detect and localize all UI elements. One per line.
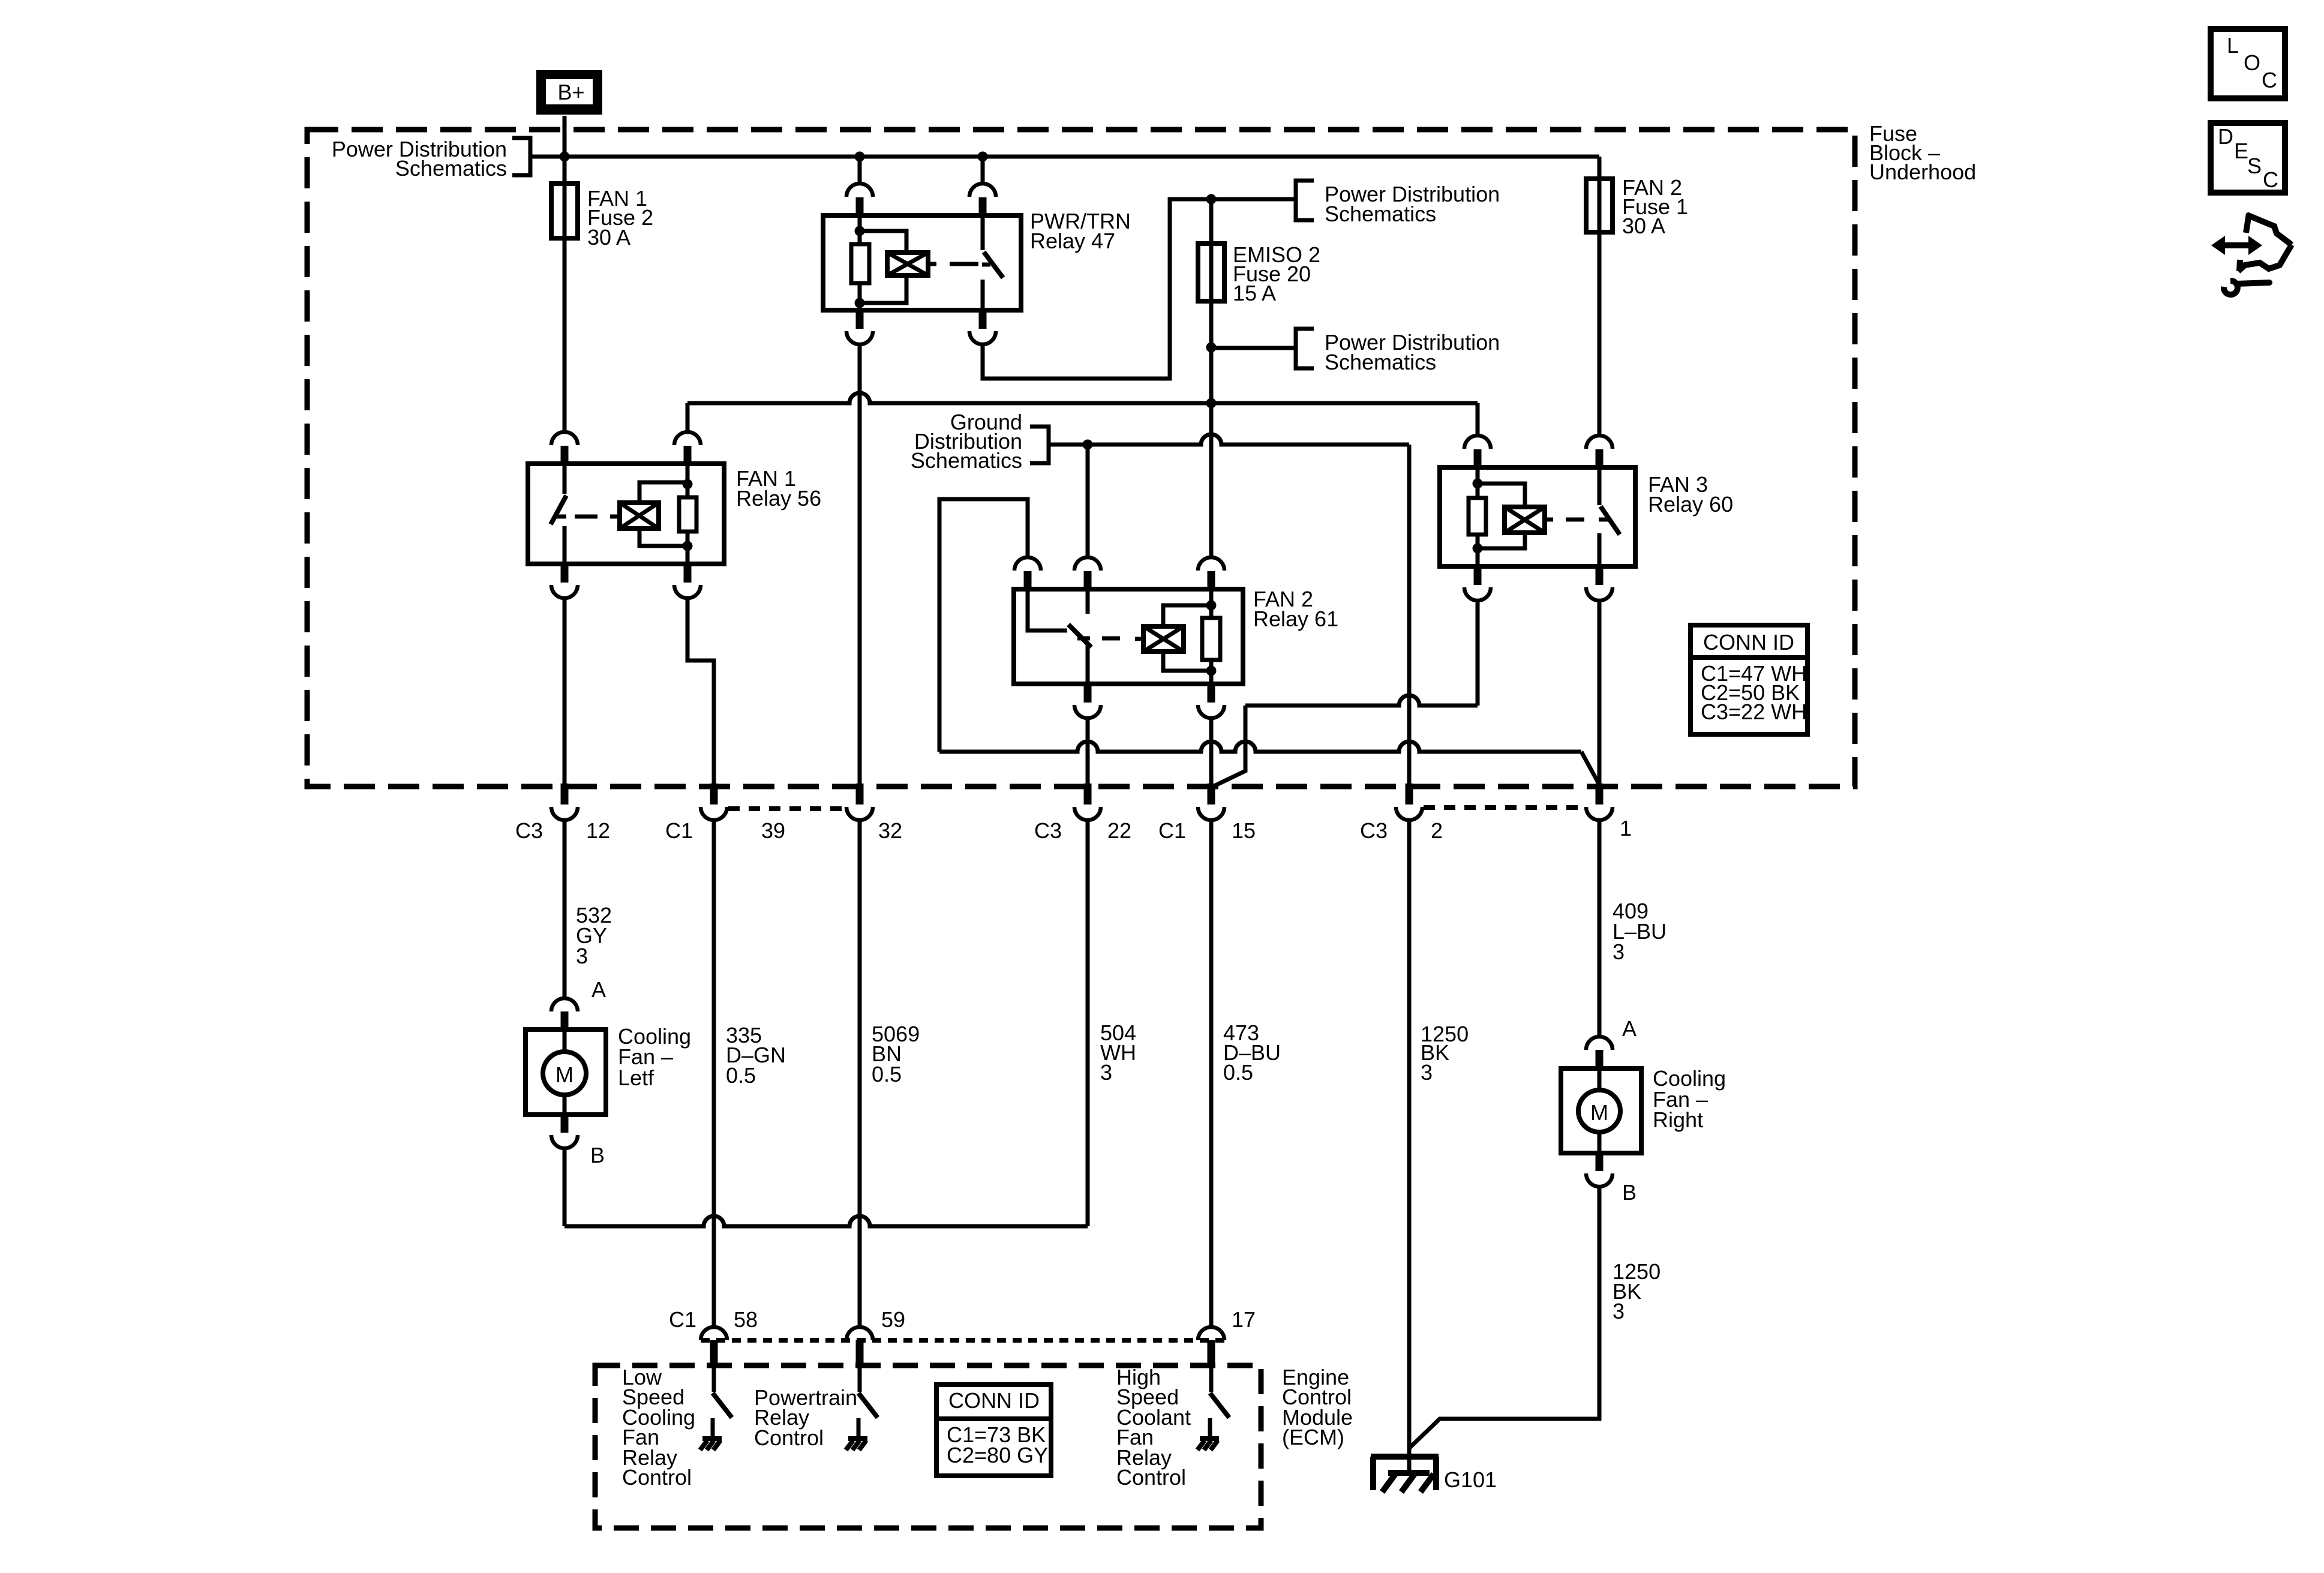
svg-text:15: 15: [1232, 818, 1256, 843]
relay47 coil pin bottom connector: [856, 310, 864, 329]
svg-text:CONN ID: CONN ID: [1703, 630, 1794, 655]
ecm box dashed boundary: [595, 1365, 1261, 1528]
svg-text:Control: Control: [1116, 1465, 1186, 1490]
fuse F20 EMISO 2 15A: [1198, 244, 1224, 301]
relay47 internal resistor: [858, 215, 862, 244]
wire relay47 coil to pin 32 exit: [858, 346, 862, 784]
wire ground line corner down to pin 2 exit: [1407, 445, 1412, 784]
svg-text:C3: C3: [1034, 818, 1062, 843]
svg-text:0.5: 0.5: [726, 1063, 756, 1088]
svg-text:C: C: [2262, 68, 2277, 92]
relay60 switch contact tick: [1599, 518, 1610, 522]
wire relay61 switch to pin 22 exit: [1086, 719, 1090, 784]
svg-text:Schematics: Schematics: [395, 156, 507, 181]
relay K61 FAN 2 box: [1014, 589, 1243, 684]
wire 504 WH pin22 to fan return: [1086, 821, 1090, 1226]
svg-text:D: D: [2218, 124, 2233, 149]
svg-text:M: M: [1590, 1100, 1608, 1125]
svg-text:B: B: [590, 1143, 605, 1167]
relay60 switch: [1598, 467, 1602, 505]
icon wrench: [2237, 283, 2269, 284]
conn id table fuse block: [1691, 625, 1807, 734]
ground G101 symbol: [1371, 1454, 1439, 1460]
wire node to emiso fuse: [1209, 199, 1214, 347]
svg-text:3: 3: [576, 944, 588, 968]
fuse block underhood dashed boundary box: [307, 130, 1855, 786]
svg-text:A: A: [591, 977, 606, 1002]
relay61 contact pin top connector: [1014, 557, 1041, 571]
relay60 actuator dashed link: [1545, 518, 1553, 522]
bracket power distribution schematics right lower: [1296, 329, 1314, 368]
icon LOC box: [2211, 29, 2285, 98]
svg-text:M: M: [556, 1062, 574, 1087]
relay61 internal junction dots: [1206, 601, 1217, 611]
wire relay61 coil return to pin 15 exit: [1209, 719, 1214, 784]
relay56 switch pin bottom connector: [561, 564, 569, 583]
relay60 coil pin bottom connector: [1474, 566, 1482, 585]
relay56 internal junction dots: [683, 479, 693, 490]
relay56 coil pin bottom connector: [684, 564, 692, 583]
svg-text:Relay 60: Relay 60: [1648, 492, 1733, 517]
svg-text:3: 3: [1613, 939, 1625, 964]
relay56 internal resistor: [686, 464, 690, 497]
relay K60 FAN 3 box: [1440, 467, 1635, 566]
svg-text:Right: Right: [1653, 1107, 1703, 1132]
svg-text:12: 12: [586, 818, 610, 843]
relay47 internal junction dots: [855, 226, 865, 236]
svg-text:O: O: [2244, 50, 2260, 75]
svg-text:Relay 56: Relay 56: [736, 486, 821, 511]
wire relay61 switch feed down: [1086, 445, 1090, 556]
wire feed line corner down to relay56 coil pin: [686, 403, 690, 431]
connector pin 1 exit: [1596, 784, 1604, 804]
svg-text:B: B: [1622, 1180, 1637, 1205]
wire emiso tap to right bracket: [1211, 346, 1296, 350]
wire horizontal feed line relay56 to relay60 coils: [687, 393, 1478, 403]
relay61 coil: [1143, 626, 1184, 652]
relay56 coil: [620, 503, 659, 529]
svg-text:C2=80 GY: C2=80 GY: [947, 1443, 1048, 1467]
relay61 fixed contact: [1028, 589, 1067, 631]
junction node bus / pwr-trn switch: [978, 152, 988, 162]
svg-text:Schematics: Schematics: [911, 448, 1022, 473]
ecm powertrain driver ground: [857, 1418, 861, 1439]
wire B+ stem to bus: [563, 116, 567, 157]
svg-text:3: 3: [1613, 1299, 1625, 1323]
bracket power distribution schematics left: [512, 138, 530, 175]
svg-text:C3: C3: [1360, 818, 1388, 843]
junction node emiso / horizontal feed line: [1206, 398, 1217, 409]
relay61 internal resistor: [1209, 589, 1214, 618]
relay56 coil pin top connector: [674, 432, 701, 445]
relay61 coil pin top connector: [1198, 557, 1224, 571]
svg-text:Schematics: Schematics: [1325, 350, 1436, 374]
wire bus corner to fan2 fuse: [1598, 157, 1602, 179]
svg-text:E: E: [2234, 139, 2248, 163]
wire bus to fan1 fuse: [563, 157, 567, 184]
wire relay47 switch output to emiso node: [983, 199, 1296, 379]
connector C3 pin 12 exit: [561, 784, 569, 804]
svg-text:C3=22 WH: C3=22 WH: [1701, 700, 1807, 724]
wire relay56 coil return jog to pin 39 exit: [687, 599, 714, 784]
junction node emiso feed: [1206, 194, 1217, 205]
relay61 switch pin top connector: [1074, 557, 1101, 571]
junction node emiso lower tap: [1206, 343, 1217, 353]
wire 532 GY pin12 to cooling fan left: [563, 821, 567, 997]
ecm low speed fan driver switch: [712, 1365, 716, 1392]
svg-text:0.5: 0.5: [872, 1062, 902, 1086]
wire relay56 switch output to pin 12 exit: [563, 599, 567, 784]
svg-text:G101: G101: [1444, 1467, 1497, 1492]
fuse F1 FAN 2 30A: [1598, 179, 1602, 232]
relay60 coil pin top connector: [1464, 436, 1491, 449]
connector C3 pin 22 exit: [1084, 784, 1092, 804]
wire 5069 BN pin32 to ecm 59: [858, 821, 862, 1327]
relay47 switch pin bottom connector: [979, 310, 987, 329]
connector C1 dashed strip pins 39-32: [728, 806, 846, 811]
relay60 switch pin bottom connector: [1596, 566, 1604, 585]
svg-text:L: L: [2227, 33, 2239, 58]
relay47 switch pin top connector: [981, 157, 985, 183]
terminal B cooling fan left: [561, 1115, 569, 1133]
svg-text:Relay 47: Relay 47: [1030, 229, 1115, 253]
relay61 coil pin bottom connector: [1208, 684, 1215, 703]
wire relay60 coil return line: [1476, 602, 1480, 706]
ecm powertrain relay driver switch: [858, 1365, 862, 1392]
icon vehicle outline: [2246, 214, 2249, 233]
svg-text:(ECM): (ECM): [1282, 1425, 1344, 1449]
wire fan2 fuse to relay60 switch pin: [1598, 232, 1602, 435]
wire feed line corner down to relay60 coil pin: [1476, 403, 1480, 435]
svg-text:S: S: [2247, 154, 2262, 178]
terminal A cooling fan right: [1586, 1037, 1613, 1050]
connector C3 pin 2 exit: [1406, 784, 1413, 804]
svg-text:58: 58: [734, 1307, 758, 1332]
relay56 actuator dashed link: [575, 515, 597, 519]
junction node B+ bus / fan1 fuse: [560, 152, 570, 162]
relay56 switch: [563, 464, 567, 494]
relay47 coil: [860, 231, 906, 253]
wire cooling fan right return 1250 BK to g101: [1409, 1188, 1599, 1448]
ecm pin C1 58 connector: [701, 1327, 727, 1340]
wire relay61 contact to pin 1 link line: [939, 742, 1581, 752]
svg-text:17: 17: [1232, 1307, 1256, 1332]
svg-text:CONN ID: CONN ID: [948, 1388, 1040, 1413]
svg-text:C3: C3: [515, 818, 543, 843]
wire 335 D-GN pin39 to ecm 58: [712, 821, 716, 1327]
relay K56 FAN 1 box: [528, 464, 724, 564]
icon DESC box: [2211, 123, 2285, 193]
conn id table ecm: [936, 1385, 1051, 1476]
connector pin 32 exit: [856, 784, 864, 804]
relay60 switch pin top connector: [1586, 436, 1613, 449]
svg-text:22: 22: [1107, 818, 1131, 843]
svg-text:Relay 61: Relay 61: [1253, 607, 1338, 631]
bracket ground distribution schematics: [1030, 427, 1049, 463]
ecm connector dashed line: [701, 1338, 1224, 1343]
connector C1 pin 39 exit: [710, 784, 718, 804]
wire relay60 switch output to pin 1 exit: [1598, 602, 1602, 784]
ecm pin 59 connector: [846, 1327, 873, 1340]
terminal A cooling fan left: [551, 998, 578, 1011]
svg-text:59: 59: [881, 1307, 905, 1332]
svg-text:3: 3: [1100, 1060, 1112, 1085]
relay56 switch pin top connector: [551, 432, 578, 445]
ecm low speed driver ground: [711, 1418, 715, 1439]
svg-text:C1: C1: [1158, 818, 1186, 843]
connector C1 pin 15 exit: [1208, 784, 1215, 804]
relay47 coil pin top connector: [858, 157, 862, 183]
B+ battery feed terminal: [539, 73, 599, 112]
svg-text:C: C: [2263, 167, 2278, 192]
junction node bus / pwr-trn coil: [855, 152, 865, 162]
relay47 actuator dashed link: [928, 262, 936, 266]
svg-text:Control: Control: [622, 1465, 692, 1490]
relay61 switch pin bottom connector: [1084, 684, 1092, 703]
wire 473 D-BU pin15 to ecm 17: [1209, 821, 1214, 1327]
wire ground distribution line: [1049, 443, 1088, 447]
relay60 internal junction dots: [1473, 479, 1483, 489]
fuse F2 FAN 1 30A: [563, 184, 567, 238]
svg-text:Underhood: Underhood: [1869, 160, 1976, 184]
svg-text:1: 1: [1620, 816, 1632, 840]
wire relay61 fixed contact feed link: [939, 499, 1028, 752]
relay60 internal resistor: [1476, 467, 1480, 498]
svg-text:30 A: 30 A: [1622, 214, 1665, 238]
svg-text:B+: B+: [557, 80, 584, 104]
svg-text:32: 32: [878, 818, 902, 843]
svg-text:15 A: 15 A: [1233, 281, 1276, 305]
wire 1250 BK pin2 to g101: [1407, 821, 1412, 1473]
ecm high speed fan driver switch: [1209, 1365, 1214, 1392]
junction node ground line / relay61 switch feed: [1083, 440, 1093, 450]
wire emiso to relay61 coil pin: [1209, 347, 1214, 557]
svg-text:2: 2: [1431, 818, 1443, 843]
wire 409 L-BU pin1 to cooling fan right: [1598, 821, 1602, 1035]
connector dashed strip pins 2-1: [1424, 805, 1585, 810]
svg-text:A: A: [1622, 1016, 1637, 1041]
svg-text:39: 39: [761, 818, 785, 843]
icon vehicle double arrow: [2223, 242, 2251, 248]
svg-text:0.5: 0.5: [1223, 1060, 1253, 1085]
wire fan1 fuse to relay56 switch pin: [563, 238, 567, 431]
svg-text:Control: Control: [754, 1425, 824, 1450]
svg-text:C1: C1: [669, 1307, 696, 1332]
terminal B cooling fan right: [1596, 1153, 1604, 1171]
svg-text:Schematics: Schematics: [1325, 202, 1436, 226]
ecm pin 17 connector: [1198, 1327, 1224, 1340]
svg-text:3: 3: [1421, 1060, 1433, 1085]
relay61 actuator dashed link: [1077, 637, 1090, 641]
relay60 coil: [1478, 484, 1525, 507]
ecm high speed driver ground: [1208, 1418, 1212, 1439]
svg-text:30 A: 30 A: [587, 225, 630, 250]
svg-text:C1: C1: [665, 818, 693, 843]
motor M cooling fan left: [526, 1029, 606, 1115]
bracket power distribution schematics right upper: [1296, 181, 1314, 220]
wire main B+ bus: [530, 155, 1599, 159]
svg-text:Letf: Letf: [618, 1065, 654, 1090]
relay61 switch: [1086, 589, 1090, 614]
motor M cooling fan right: [1561, 1068, 1641, 1153]
relay47 switch: [981, 215, 985, 250]
relay47 switch contact tick: [982, 263, 990, 267]
relay U47 PWR/TRN box: [823, 215, 1021, 310]
wire cooling fan left return to 504 wh: [563, 1149, 567, 1226]
